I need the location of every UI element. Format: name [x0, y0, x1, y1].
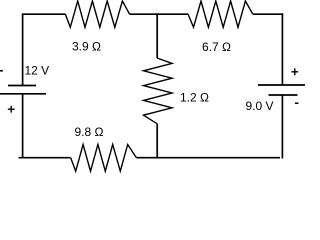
wire bottom left horizontal	[19, 157, 71, 159]
svg-text:1.2 Ω: 1.2 Ω	[180, 91, 209, 105]
wire right vertical upper	[281, 13, 283, 85]
wire left vertical lower	[22, 94, 24, 159]
svg-text:9.8 Ω: 9.8 Ω	[75, 125, 104, 139]
wire middle vertical lower	[156, 124, 158, 159]
svg-text:6.7 Ω: 6.7 Ω	[202, 40, 231, 54]
svg-text:3.9 Ω: 3.9 Ω	[72, 40, 101, 54]
battery B2 minus sign	[295, 102, 299, 104]
battery B2 9.0 V long plate (+)	[258, 84, 305, 86]
svg-text:12 V: 12 V	[25, 64, 50, 78]
battery B2 9.0 V short plate (-)	[269, 94, 298, 96]
resistor R3 9.8 ohm zigzag	[71, 145, 137, 172]
battery B1 12 V short plate (-)	[8, 85, 36, 87]
battery B2 plus sign	[291, 68, 298, 75]
wire bottom right horizontal	[136, 157, 280, 159]
resistor R4 1.2 ohm vertical zigzag	[144, 58, 173, 124]
svg-text:9.0 V: 9.0 V	[246, 99, 274, 113]
wire right vertical lower	[281, 95, 283, 159]
wire middle vertical upper	[156, 13, 158, 58]
wire top-left horizontal	[22, 13, 66, 15]
wire left vertical upper	[22, 14, 24, 85]
battery B1 minus sign	[0, 70, 3, 72]
wire top-right horizontal	[253, 13, 284, 15]
resistor R1 3.9 ohm zigzag	[65, 1, 129, 27]
battery B1 plus sign	[8, 106, 15, 113]
resistor R2 6.7 ohm zigzag	[188, 1, 253, 27]
wire top middle horizontal	[130, 13, 189, 15]
battery B1 12 V long plate (+)	[0, 93, 46, 95]
